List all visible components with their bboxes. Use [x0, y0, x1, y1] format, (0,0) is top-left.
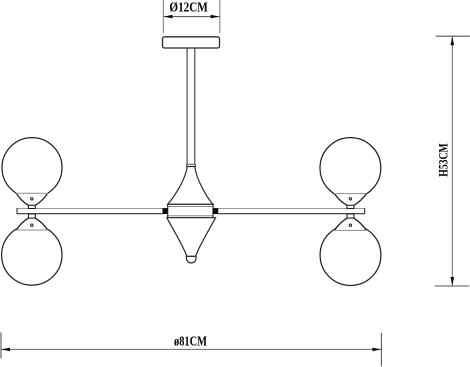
width dimension right arrow: [372, 348, 381, 352]
lower teardrop of center body: [167, 218, 216, 257]
top dimension extension line left: [162, 0, 164, 33]
height dimension bottom tick: [435, 285, 469, 287]
right connector block: [213, 208, 218, 214]
top dimension left arrow: [164, 15, 173, 19]
hub inner line upper: [168, 206, 212, 208]
globe sphere top-left: [2, 138, 62, 198]
height dimension line: [451, 37, 453, 286]
finial ball: [186, 256, 196, 263]
height dimension top arrow: [451, 36, 455, 45]
socket bottom-left: [16, 218, 47, 230]
width dimension line: [1, 348, 381, 350]
globe sphere bottom-right: [320, 225, 381, 286]
top dimension extension line right: [219, 0, 221, 33]
svg-text:Ø12CM: Ø12CM: [169, 0, 207, 15]
upper flare of center body: [168, 167, 213, 205]
right arm bar: [218, 209, 365, 214]
socket top-left: [16, 193, 47, 205]
top dimension line: [164, 16, 220, 18]
globe sphere bottom-left: [2, 225, 62, 285]
center hub: [168, 204, 213, 217]
width dimension left tick: [0, 332, 2, 358]
globe sphere top-right: [320, 138, 381, 199]
width dimension right tick: [380, 333, 382, 366]
socket bottom-right: [334, 218, 366, 230]
height dimension top tick: [436, 35, 470, 37]
svg-text:ø81CM: ø81CM: [174, 335, 207, 350]
top dimension right arrow: [211, 15, 220, 19]
hub inner line lower: [168, 215, 212, 217]
ceiling canopy: [163, 37, 220, 48]
stem collar: [187, 164, 196, 166]
left arm bar: [17, 209, 163, 214]
svg-text:H53CM: H53CM: [436, 143, 451, 176]
height dimension bottom arrow: [451, 277, 455, 286]
width dimension left arrow: [1, 348, 10, 352]
stem rod: [186, 49, 188, 165]
left connector block: [163, 208, 168, 214]
socket top-right: [334, 194, 366, 206]
